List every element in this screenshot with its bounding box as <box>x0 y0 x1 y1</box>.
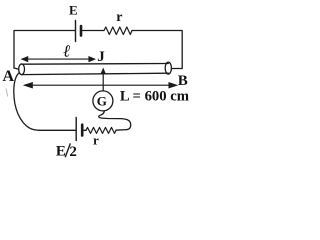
svg-text:E: E <box>69 2 78 17</box>
svg-text:A: A <box>3 68 15 85</box>
svg-text:G: G <box>97 93 107 108</box>
svg-text:ℓ: ℓ <box>63 42 70 61</box>
svg-text:2: 2 <box>69 144 77 160</box>
svg-text:L = 600 cm: L = 600 cm <box>120 89 189 105</box>
svg-text:r: r <box>116 10 122 25</box>
svg-text:r: r <box>93 132 99 147</box>
svg-text:E: E <box>56 144 66 160</box>
svg-text:B: B <box>178 73 188 89</box>
svg-text:J: J <box>97 49 105 65</box>
